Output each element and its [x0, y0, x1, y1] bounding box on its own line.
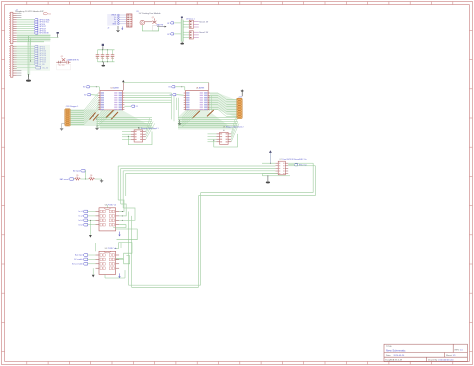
svg-text:U7: U7	[280, 159, 282, 161]
wire J1 row 6	[17, 23, 35, 25]
svg-text:CN1 Stepper 1: CN1 Stepper 1	[66, 105, 79, 108]
wire J1 row 7	[17, 25, 35, 27]
svg-text:Servo2 5V: Servo2 5V	[199, 31, 209, 34]
wire U7 bottom	[262, 174, 290, 177]
net label St1	[84, 94, 90, 97]
net label St2	[170, 94, 176, 97]
power flag VMOT	[102, 44, 104, 50]
svg-text:A4988: A4988	[199, 86, 204, 89]
wire loop middle verticals	[199, 193, 201, 288]
svg-text:E1: E1	[83, 87, 85, 89]
wire U9 bottom loop	[105, 270, 125, 278]
wire J1 row 5	[17, 21, 35, 23]
svg-text:In b1: In b1	[79, 220, 83, 222]
wire J1 lower row 7	[17, 59, 35, 61]
wire J1 lower row 6	[17, 57, 35, 59]
wire R5 to R6	[80, 178, 88, 180]
net label F1	[124, 105, 138, 108]
mosfet box Q2 body	[153, 25, 159, 31]
wire St1	[91, 94, 98, 97]
wire fan loop	[142, 25, 158, 31]
J1 pin stubs upper	[9, 13, 17, 42]
pin header J3	[183, 20, 199, 28]
wire loop left verticals	[118, 166, 126, 208]
net label ESC out	[294, 164, 307, 167]
svg-text:R5: R5	[76, 175, 78, 177]
wire J1 row 8	[17, 28, 35, 30]
wire S1 to bus	[174, 22, 181, 24]
J1 pin stubs lower	[9, 46, 17, 75]
capacitor C3	[106, 50, 110, 62]
bus entry diagonals circuit1 left	[90, 113, 99, 121]
wire St2	[177, 94, 184, 97]
power flag 3V3	[57, 32, 59, 37]
net label GPIO13	[34, 50, 46, 53]
ground GND circuit1	[95, 125, 98, 130]
net label In b2	[79, 223, 96, 226]
net label S2	[167, 33, 173, 36]
svg-text:BAT sense: BAT sense	[60, 178, 69, 181]
J1 lower bus band	[14, 45, 50, 71]
svg-text:U6: U6	[223, 127, 225, 129]
wire E2	[176, 86, 185, 90]
wire loop right verticals from U7	[288, 163, 315, 195]
svg-text:100n: 100n	[101, 58, 105, 60]
transistor Q1 charger input	[61, 56, 80, 61]
motor M1	[140, 20, 145, 25]
junction dots U8 right	[121, 211, 124, 221]
vertical 5V bus servo	[181, 20, 184, 42]
wire cap bank bottom bus	[98, 61, 115, 63]
capacitor C1	[96, 50, 100, 62]
connector J1 Raspberry Pi GPIO header	[11, 9, 51, 77]
ground GND CN1	[60, 124, 65, 131]
svg-text:S2: S2	[170, 94, 172, 96]
wire E1	[90, 86, 99, 90]
resistor R5	[75, 175, 81, 180]
junction dots U9 right	[114, 248, 117, 260]
wire J1 lower row 5	[17, 54, 35, 56]
net label In b1	[79, 219, 96, 222]
svg-text:Stepper Opto Bank 2: Stepper Opto Bank 2	[226, 126, 244, 129]
label U6	[223, 126, 244, 129]
wire U9 gnd stem	[92, 268, 95, 277]
net label GPIO5	[34, 46, 45, 49]
wire S2 to bus	[174, 33, 181, 35]
net label E2	[169, 86, 175, 89]
net label GPIO6	[34, 48, 45, 51]
capacitor C9	[58, 61, 70, 67]
svg-text:U9: U9	[105, 248, 107, 250]
wire U8 gnd stem	[89, 220, 92, 238]
junction dots cap bank	[102, 49, 108, 62]
wire bus under circuit1	[97, 118, 153, 128]
connector J2 power input	[107, 14, 126, 26]
label U7	[280, 158, 307, 161]
svg-text:In a2: In a2	[79, 216, 83, 218]
wire J1 lower row 8	[17, 61, 35, 63]
net label GPIO26	[34, 54, 46, 57]
label U3	[138, 127, 159, 130]
wire U6 bottom loop	[213, 130, 237, 147]
J1 lower NC stubs	[17, 71, 22, 75]
svg-text:Servo1 5V: Servo1 5V	[199, 21, 209, 24]
net label I2C ID wide	[35, 66, 49, 69]
wire to R5	[73, 178, 74, 180]
svg-text:5.0: 5.0	[48, 13, 51, 15]
net label GPIO16	[34, 57, 46, 60]
wire esc label	[288, 164, 294, 166]
svg-text:EasyEDA V6.5.48: EasyEDA V6.5.48	[385, 359, 402, 362]
net label GPIO4	[34, 23, 45, 26]
net label AD input	[73, 170, 85, 173]
wire AD input down to divider	[85, 171, 86, 180]
bus entry diagonals circuit2 bottom	[192, 110, 213, 118]
wire cap bank top bus	[98, 49, 115, 51]
ground divider	[100, 179, 103, 183]
bus entry diagonals circuit1 bottom	[106, 110, 118, 120]
svg-text:Q2: Q2	[152, 17, 154, 19]
J1 upper NC stubs	[17, 13, 22, 17]
verticals right of IC2	[209, 96, 211, 111]
svg-text:GND: GND	[112, 24, 117, 26]
wire J1 row 11 long	[17, 34, 51, 36]
nested wires between U8 and U9	[113, 225, 137, 264]
svg-text:DC enable: DC enable	[74, 259, 83, 261]
svg-text:100n: 100n	[106, 58, 110, 60]
svg-text:Date:: Date:	[386, 354, 391, 357]
ground GND J2	[116, 26, 119, 32]
optocoupler U6	[217, 132, 232, 144]
net label GPIO17	[34, 25, 46, 28]
ground GND cap bank	[102, 62, 106, 67]
pin header H1	[127, 14, 133, 27]
net label SPI0 MOSI	[34, 32, 49, 35]
power arrow CN2	[241, 89, 244, 96]
net label In a2	[79, 215, 96, 218]
wire R6 to gnd	[95, 178, 102, 180]
svg-text:S2: S2	[167, 34, 169, 36]
wire bus under circuit2	[178, 118, 238, 128]
net label GPIO2 SDA	[34, 19, 50, 22]
wire to I2C label	[17, 67, 35, 69]
net label ID SD	[34, 63, 45, 66]
svg-text:In b2: In b2	[79, 224, 83, 226]
net label BAT sense	[60, 178, 74, 181]
title block	[384, 344, 467, 361]
wire J1 row 14 long	[17, 41, 44, 43]
svg-text:Raspberry Pi GPIO Header 40P: Raspberry Pi GPIO Header 40P	[15, 11, 44, 13]
pin header J4	[183, 31, 199, 39]
wire J1 lower row 3	[17, 50, 35, 52]
net label Aux input	[75, 254, 95, 257]
wire J1 row 10	[17, 32, 35, 34]
wire motor to Q2	[145, 21, 153, 23]
ground GND J2b	[121, 27, 123, 31]
battery outline B1	[57, 64, 71, 70]
stepper driver module U4	[184, 83, 210, 111]
svg-text:AD input: AD input	[73, 170, 80, 173]
wire U3 bottom loop	[128, 127, 152, 144]
svg-text:New Schematic: New Schematic	[386, 348, 406, 352]
net label E1	[83, 86, 89, 89]
svg-text:PC817 x4: PC817 x4	[108, 204, 116, 206]
optocoupler U8	[96, 204, 120, 231]
wire J1 lower row 4	[17, 52, 35, 54]
wire bus CN1 to driver fan	[70, 93, 99, 126]
wire IC1 outputs to right	[124, 93, 171, 102]
staircase loop to U8	[118, 200, 135, 220]
inter-circuit verticals	[172, 93, 179, 121]
fan into U3	[146, 118, 155, 140]
wire J1 lower row 9	[17, 63, 35, 65]
optocoupler U9	[96, 248, 120, 275]
svg-text:Drawn By: embeddedmaker: Drawn By: embeddedmaker	[428, 359, 454, 362]
ground blue U9	[119, 273, 121, 276]
svg-text:E2: E2	[169, 87, 171, 89]
svg-text:Servo enable: Servo enable	[72, 264, 83, 266]
svg-text:Stepper Opto Bank 1: Stepper Opto Bank 1	[141, 127, 159, 130]
wire U9 top verticals	[96, 243, 121, 251]
capacitor C2	[101, 50, 105, 62]
net label GPIO22	[34, 30, 46, 33]
wire J1 row 9	[17, 30, 35, 32]
wire U8 top pin	[106, 205, 108, 208]
net label GPIO3 SCL	[34, 21, 49, 24]
wire power to U7 pin1	[262, 162, 275, 165]
J1 upper bus band	[17, 35, 51, 42]
stepper driver module U2	[98, 83, 124, 111]
net label GPIO27	[34, 28, 46, 31]
wire J1 row 4	[17, 19, 35, 21]
transistor Q2	[152, 17, 157, 24]
capacitor C4	[111, 50, 115, 62]
wire output arrow	[157, 24, 167, 28]
svg-text:U3: U3	[138, 128, 140, 130]
fan IC2 bottom	[178, 110, 234, 130]
svg-text:U8: U8	[105, 204, 107, 206]
wire charger rail	[56, 61, 66, 64]
svg-text:R12 10k: R12 10k	[58, 65, 64, 67]
wire VMOT rail between drivers	[122, 80, 209, 83]
net label GPIO20	[34, 59, 46, 62]
ground GND J1	[26, 74, 31, 82]
optocoupler U3	[131, 130, 146, 142]
connector CN2 stepper motor 2	[237, 98, 243, 118]
svg-text:J2: J2	[107, 27, 109, 29]
net label GPIO21	[34, 61, 46, 64]
svg-text:2024-03-20: 2024-03-20	[394, 355, 405, 357]
wire J1 lower row 1	[17, 46, 35, 48]
wire loop middle horizontals	[199, 193, 316, 196]
svg-text:Dual 5V/3.3V Servo/ESC Ou: Dual 5V/3.3V Servo/ESC Ou	[283, 158, 307, 161]
svg-text:100n: 100n	[96, 58, 100, 60]
wire vertical bus to ground	[28, 36, 30, 77]
svg-text:Sheet: 1/1: Sheet: 1/1	[446, 354, 456, 357]
svg-text:SPI0 MOSI: SPI0 MOSI	[39, 33, 49, 35]
wire loop top lines	[118, 166, 275, 173]
svg-text:PC817 x4: PC817 x4	[108, 248, 116, 250]
svg-text:REV: 1.0: REV: 1.0	[455, 349, 464, 351]
junction dot J1	[29, 60, 32, 63]
wire IC2 to CN2 bus	[210, 93, 237, 118]
fan IC1 bottom	[97, 110, 157, 130]
connector CN1 stepper motor 1	[65, 109, 71, 126]
power flag servo out	[269, 150, 272, 163]
label U5 fan module	[136, 11, 161, 15]
svg-text:S1: S1	[84, 94, 86, 96]
wire J1 row 12 long	[17, 36, 59, 38]
junction dots circuit1	[93, 116, 97, 120]
svg-text:A4988: A4988	[113, 86, 118, 89]
ground U7	[266, 176, 270, 184]
wires U6 left	[208, 134, 217, 142]
svg-text:In a1: In a1	[79, 211, 83, 213]
net label DC enable	[74, 258, 95, 261]
net label In a1	[79, 210, 96, 213]
svg-text:S1: S1	[167, 23, 169, 25]
net label Servo enable	[72, 263, 95, 266]
power flag servo bus	[181, 17, 183, 20]
svg-text:R6: R6	[90, 175, 92, 177]
net label GPIO19	[34, 52, 46, 55]
wire J1 row 13 long	[17, 39, 51, 41]
wires U3 left	[122, 132, 131, 140]
module U7 servo esc out	[275, 161, 288, 175]
net label S1	[167, 22, 173, 25]
fan into U6	[231, 118, 239, 142]
svg-text:FAN PW: FAN PW	[157, 24, 164, 27]
wire J1 lower row 2	[17, 48, 35, 50]
ground servo bus	[180, 42, 184, 45]
resistor R6	[89, 175, 95, 180]
ground blue U8	[119, 232, 121, 235]
wire loop bottom horizontals	[129, 285, 201, 287]
svg-text:100n: 100n	[111, 58, 115, 60]
wire loop bottom-left verticals	[129, 212, 132, 288]
ground GND circuit2	[178, 120, 181, 126]
svg-text:F1: F1	[136, 106, 138, 108]
svg-text:Aux input: Aux input	[75, 254, 83, 257]
svg-text:Q1: Q1	[61, 56, 63, 58]
svg-text:5V Cooling Fan Module: 5V Cooling Fan Module	[139, 13, 162, 15]
